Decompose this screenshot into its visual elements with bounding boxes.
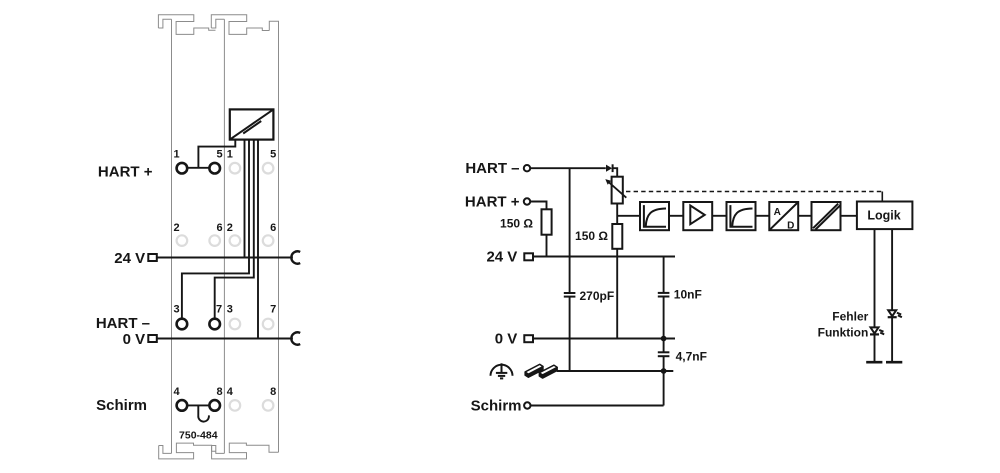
svg-text:10nF: 10nF <box>674 288 702 302</box>
svg-text:2: 2 <box>173 222 179 234</box>
pin 3 module2 contact <box>230 319 241 330</box>
terminal 24V left (square) <box>148 254 157 261</box>
block U3 amplifier <box>683 202 712 230</box>
wire pin4 to pin8 <box>182 404 215 406</box>
svg-text:HART +: HART + <box>98 164 153 181</box>
wire varistor bottom to resistor R2, with tap to filter chain <box>616 204 618 225</box>
module outline group <box>158 15 278 459</box>
svg-text:150 Ω: 150 Ω <box>575 229 608 243</box>
LED Funktion (left line) <box>870 327 884 334</box>
svg-text:HART –: HART – <box>96 315 150 332</box>
module 2 bottom profile outer <box>212 443 279 459</box>
pin 1 module2 contact <box>230 163 241 174</box>
wire 0V rail left module <box>157 338 293 340</box>
wire 270pF branch upper <box>569 168 571 293</box>
module 1 top profile outer <box>158 15 215 35</box>
wire from diode to varistor top <box>613 168 618 177</box>
unconnected pin contacts (light gray circles) <box>177 163 274 411</box>
LED cathode bar Funktion <box>866 361 882 364</box>
wire riser from pin1/5 bus up to DC/DC converter corner <box>198 140 235 168</box>
block U6 isolation <box>812 202 841 230</box>
wire 270pF branch lower <box>569 297 571 371</box>
svg-text:Schirm: Schirm <box>471 398 522 415</box>
svg-text:7: 7 <box>216 303 222 315</box>
block U2 filter 1 <box>640 202 669 230</box>
wire Logik to Funktion LED <box>874 229 876 362</box>
block U4 filter 2 <box>727 202 756 230</box>
dashed line drop tick into Logik <box>881 192 883 202</box>
wire resistor R1 bottom to 24V rail <box>546 235 548 257</box>
dashed control line from varistor to Logik <box>626 191 882 193</box>
left side labels <box>96 164 153 415</box>
pin 4 module2 contact <box>230 400 241 411</box>
block U7 Logik <box>857 202 913 230</box>
wire between block2 and block3 <box>712 215 726 217</box>
svg-text:24 V: 24 V <box>486 249 517 266</box>
module 1 bottom inner hook <box>159 446 172 454</box>
connected pin circles (black) <box>177 163 220 411</box>
power jumper contact arc 24V <box>291 251 300 263</box>
svg-text:6: 6 <box>216 222 222 234</box>
pin number labels module 1 <box>173 149 276 399</box>
wire 10nF branch upper <box>663 257 665 293</box>
svg-text:5: 5 <box>216 149 222 161</box>
svg-text:270pF: 270pF <box>580 289 615 303</box>
pin 7 module1 <box>209 319 220 330</box>
wire 4,7nF lower to shield rail <box>663 356 665 405</box>
pin 6 module2 contact <box>263 235 274 246</box>
power jumper contact arc 0V <box>291 332 300 344</box>
left drawing wiring <box>157 140 293 422</box>
capacitor C3 4,7nF <box>658 352 670 356</box>
svg-text:2: 2 <box>227 222 233 234</box>
wire between block4 and block5 <box>798 215 811 217</box>
LED cathode bar Fehler <box>886 361 902 364</box>
wire resistor R2 bottom to 0V rail <box>616 249 618 339</box>
svg-text:4: 4 <box>173 386 180 398</box>
svg-text:8: 8 <box>216 386 222 398</box>
svg-text:Funktion: Funktion <box>818 325 869 339</box>
resistor R2 150 Ohm <box>612 224 622 249</box>
svg-text:HART +: HART + <box>465 194 520 211</box>
svg-text:HART –: HART – <box>465 160 519 177</box>
svg-text:D: D <box>787 220 794 231</box>
wire Schirm line <box>530 405 663 407</box>
wire bus D from DC/DC to 0V rail <box>257 140 259 339</box>
pin 6 module1 contact <box>209 235 220 246</box>
svg-text:150 Ω: 150 Ω <box>500 217 533 231</box>
capacitor C1 270pF <box>564 293 576 297</box>
block U5 A/D converter <box>769 202 798 231</box>
module 2 top profile inner hook <box>211 19 224 28</box>
terminal 0V right (square) <box>524 335 533 342</box>
svg-text:1: 1 <box>173 149 179 161</box>
pin 8 module1 <box>209 400 220 411</box>
pin 5 module1 <box>209 163 220 174</box>
module 1 left body edge <box>171 19 173 453</box>
wire between block5 and Logik <box>841 215 857 217</box>
wire bus A from DC/DC to 24V rail <box>244 140 246 258</box>
svg-text:0 V: 0 V <box>495 331 518 348</box>
module 2 bottom inner hook <box>212 446 225 454</box>
varistor RV1 (box with arrow) <box>605 177 626 204</box>
wire bus B from DC/DC to pin 3 <box>182 140 249 324</box>
DC/DC converter U1 (box with diagonal) <box>230 109 274 139</box>
pin 8 module2 contact <box>263 400 274 411</box>
svg-text:0 V: 0 V <box>123 331 146 348</box>
pin 3 module1 <box>177 319 188 330</box>
wire Logik to Fehler LED <box>891 229 893 362</box>
terminal 0V left (square) <box>148 335 157 342</box>
pin 2 module1 contact <box>177 235 188 246</box>
junction dot 0V/10nF <box>661 336 667 342</box>
svg-text:750-484: 750-484 <box>179 429 218 441</box>
svg-text:4,7nF: 4,7nF <box>676 350 707 364</box>
pin 5 module2 contact <box>263 163 274 174</box>
svg-text:Fehler: Fehler <box>832 309 868 323</box>
earth ground symbol <box>491 363 513 378</box>
svg-text:A: A <box>774 207 781 218</box>
capacitor C2 10nF <box>658 293 670 297</box>
pin 2 module2 contact <box>230 235 241 246</box>
svg-text:4: 4 <box>227 386 234 398</box>
module 2 top profile outer <box>211 15 269 35</box>
wire bus C from DC/DC to pin 7 <box>215 140 254 324</box>
svg-text:3: 3 <box>173 303 179 315</box>
svg-text:Schirm: Schirm <box>96 397 147 414</box>
pin 4 module1 <box>177 400 188 411</box>
wire between block1 and block2 <box>669 215 683 217</box>
pin 1 module1 <box>177 163 188 174</box>
diode D1 on HART- line <box>606 164 613 172</box>
wire 24V rail left module <box>157 257 293 259</box>
terminal HART+ (circle) <box>524 198 530 204</box>
wire chassis line <box>557 370 674 372</box>
module right edge with top stub <box>269 21 278 452</box>
right side labels <box>465 160 522 414</box>
module 1 bottom profile outer <box>159 443 216 459</box>
svg-text:5: 5 <box>270 149 276 161</box>
terminal HART- (circle) <box>524 165 530 171</box>
pin 7 module2 contact <box>263 319 274 330</box>
module 1 top profile inner hook <box>158 19 171 28</box>
svg-text:Logik: Logik <box>867 208 900 222</box>
wire pin1 to pin5 <box>182 167 215 169</box>
svg-text:7: 7 <box>270 303 276 315</box>
wire tap to block chain <box>617 215 640 217</box>
wire HART+ input line into resistor R1 <box>530 202 547 210</box>
chassis shield clamp symbol (3D) <box>525 364 557 378</box>
terminal 24V right (square) <box>524 253 533 260</box>
svg-text:6: 6 <box>270 222 276 234</box>
wire between block3 and block4 <box>756 215 770 217</box>
wire 10nF branch lower / 4,7nF upper <box>663 297 665 353</box>
LED Fehler (right line) <box>888 310 902 317</box>
wire 0V rail right <box>533 338 675 340</box>
junction dot chassis/4,7nF <box>661 368 667 374</box>
module 2 left body edge <box>223 19 225 453</box>
svg-text:1: 1 <box>227 149 233 161</box>
wire shield drain J-hook <box>198 405 209 421</box>
svg-text:8: 8 <box>270 386 276 398</box>
svg-text:24 V: 24 V <box>114 250 145 267</box>
resistor R1 150 Ohm (HART+) <box>542 209 552 234</box>
svg-text:3: 3 <box>227 303 233 315</box>
wire HART- input line <box>530 167 606 169</box>
terminal Schirm (circle) <box>524 402 530 408</box>
wire 24V rail right <box>533 256 675 258</box>
